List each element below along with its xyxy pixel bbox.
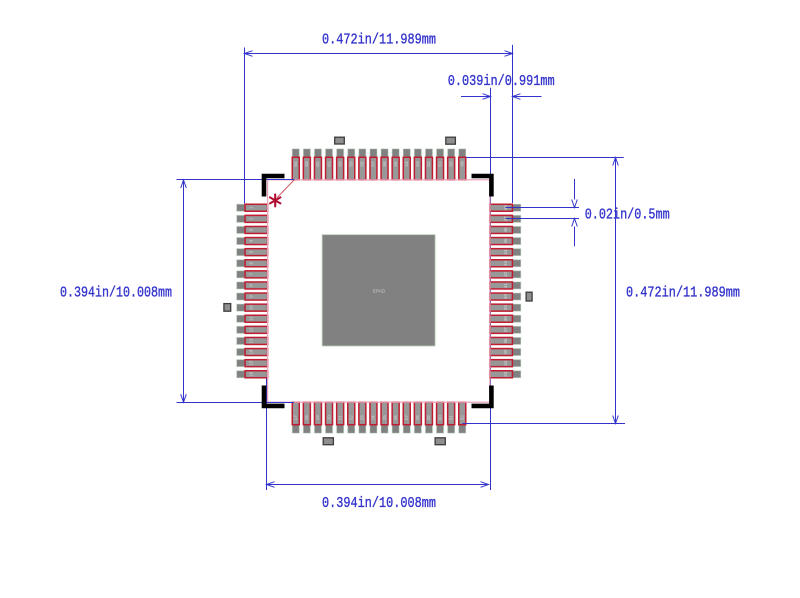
pad pin 36 [490,337,521,344]
pad pin 35 [490,349,521,356]
pad pin 58 [359,149,366,180]
pad pin 59 [348,149,355,180]
svg-text:61: 61 [326,161,331,167]
pad pin 11 [237,315,268,322]
pad pin 21 [337,402,344,433]
pad pin 64 [292,149,299,180]
svg-text:6: 6 [249,262,254,265]
svg-text:27: 27 [404,415,409,421]
svg-text:23: 23 [360,415,365,421]
pin1 asterisk [270,194,280,206]
pad pin 34 [490,360,521,367]
pad pin 5 [237,249,268,256]
svg-text:21: 21 [337,415,342,421]
svg-text:44: 44 [503,249,508,255]
pad pin 63 [303,149,310,180]
pad pin 55 [392,149,399,180]
marker bottom-left [323,438,333,445]
dim bottom 0.394in/10.008mm [267,482,489,513]
pad pin 48 [490,204,521,211]
svg-text:5: 5 [249,250,254,253]
svg-text:42: 42 [503,271,508,277]
pad pin 24 [370,402,377,433]
svg-text:18: 18 [304,415,309,421]
pad pin 31 [448,402,455,433]
svg-text:60: 60 [337,161,342,167]
svg-text:16: 16 [249,371,254,377]
pad pin 8 [237,282,268,289]
pin1 leader line [277,180,294,198]
dim left 0.394in/10.008mm [60,180,294,403]
svg-text:43: 43 [503,260,508,266]
pad pin 43 [490,260,521,267]
svg-text:54: 54 [404,161,409,167]
svg-text:51: 51 [437,161,442,167]
svg-text:20: 20 [326,415,331,421]
svg-text:22: 22 [348,415,353,421]
svg-text:10: 10 [249,305,254,311]
pad pin 19 [314,402,321,433]
dim top 0.472in/11.989mm [245,32,513,204]
svg-text:19: 19 [315,415,320,421]
node body-outline [268,180,490,402]
svg-text:63: 63 [304,161,309,167]
svg-text:41: 41 [503,282,508,288]
pad pin 45 [490,238,521,245]
wire [490,88,492,490]
pad pin 51 [437,149,444,180]
svg-text:15: 15 [249,360,254,366]
svg-text:64: 64 [293,161,298,167]
pad pin 12 [237,326,268,333]
pad pin 1 [237,204,268,211]
pad pin 52 [425,149,432,180]
pad pin 10 [237,304,268,311]
node EPAD [322,235,435,346]
svg-text:55: 55 [393,161,398,167]
bracket bottom-left [264,386,285,406]
pad pin 42 [490,271,521,278]
svg-text:17: 17 [293,415,298,421]
svg-text:0.02in/0.5mm: 0.02in/0.5mm [585,207,670,224]
pad pin 41 [490,282,521,289]
svg-text:33: 33 [503,371,508,377]
pad pin 3 [237,226,268,233]
pad pin 14 [237,349,268,356]
pad pin 9 [237,293,268,300]
pad pin 32 [459,402,466,433]
pad pin 57 [370,149,377,180]
svg-text:9: 9 [249,295,254,298]
svg-text:11: 11 [249,316,254,321]
svg-text:32: 32 [459,415,464,421]
svg-text:49: 49 [459,161,464,167]
svg-text:59: 59 [348,161,353,167]
svg-text:14: 14 [249,349,254,355]
svg-text:56: 56 [382,161,387,167]
bracket bottom-right [472,386,492,406]
svg-text:0.472in/11.989mm: 0.472in/11.989mm [626,285,740,302]
svg-text:3: 3 [249,228,254,231]
pad pin 28 [414,402,421,433]
svg-text:36: 36 [503,338,508,344]
pad pin 54 [403,149,410,180]
bracket top-right [472,176,492,197]
pad pin 53 [414,149,421,180]
svg-text:28: 28 [415,415,420,421]
pad pin 27 [403,402,410,433]
marker right [526,292,532,301]
marker top-right [446,137,456,144]
svg-text:46: 46 [503,227,508,233]
pad pin 23 [359,402,366,433]
pad pin 17 [292,402,299,433]
svg-text:7: 7 [249,273,254,276]
pad pin 22 [348,402,355,433]
svg-text:45: 45 [503,238,508,244]
svg-text:26: 26 [393,415,398,421]
pad pin 56 [381,149,388,180]
pad pin 2 [237,215,268,222]
svg-text:37: 37 [503,327,508,333]
wire [266,378,268,490]
dim 0.02in/0.5mm [506,179,670,246]
pad pin 40 [490,293,521,300]
svg-text:4: 4 [249,239,254,242]
pad pin 49 [459,149,466,180]
svg-text:34: 34 [503,360,508,366]
svg-text:13: 13 [249,338,254,344]
svg-text:40: 40 [503,294,508,300]
svg-text:35: 35 [503,349,508,355]
pad pin 18 [303,402,310,433]
svg-text:58: 58 [360,161,365,167]
pad pin 15 [237,360,268,367]
svg-text:53: 53 [415,161,420,167]
svg-text:8: 8 [249,284,254,287]
svg-text:29: 29 [426,415,431,421]
dim 0.039in/0.991mm [448,73,555,100]
dim right 0.472in/11.989mm [463,158,741,424]
pad pin 13 [237,337,268,344]
pad pin 39 [490,304,521,311]
pad pin 16 [237,371,268,378]
pad pin 30 [437,402,444,433]
svg-text:0.394in/10.008mm: 0.394in/10.008mm [60,284,172,301]
pad pin 37 [490,326,521,333]
marker bottom-right [435,438,445,445]
svg-text:24: 24 [371,415,376,421]
svg-text:1: 1 [249,206,254,209]
bracket top-left [264,176,285,197]
pad pin 20 [326,402,333,433]
svg-text:2: 2 [249,217,254,220]
pad pin 44 [490,249,521,256]
svg-text:38: 38 [503,316,508,322]
pad pin 7 [237,271,268,278]
svg-text:52: 52 [426,161,431,167]
marker top-left [335,137,345,144]
svg-text:57: 57 [371,161,376,167]
marker left [224,304,231,312]
pad pin 46 [490,226,521,233]
pad pin 25 [381,402,388,433]
svg-text:39: 39 [503,305,508,311]
svg-text:0.039in/0.991mm: 0.039in/0.991mm [448,73,555,90]
svg-text:30: 30 [437,415,442,421]
svg-text:12: 12 [249,327,254,333]
pad pin 33 [490,371,521,378]
svg-text:31: 31 [448,415,453,421]
svg-text:62: 62 [315,161,320,167]
pad pin 62 [314,149,321,180]
svg-text:25: 25 [382,415,387,421]
pad pin 47 [490,215,521,222]
pad pin 4 [237,238,268,245]
pad pin 50 [448,149,455,180]
svg-text:50: 50 [448,161,453,167]
pad pin 38 [490,315,521,322]
svg-text:0.394in/10.008mm: 0.394in/10.008mm [322,495,436,512]
pad pin 26 [392,402,399,433]
pad pin 60 [337,149,344,180]
svg-text:EPAD: EPAD [373,289,386,294]
pad pin 61 [326,149,333,180]
svg-text:0.472in/11.989mm: 0.472in/11.989mm [322,32,436,49]
pad pin 29 [425,402,432,433]
pad pin 6 [237,260,268,267]
